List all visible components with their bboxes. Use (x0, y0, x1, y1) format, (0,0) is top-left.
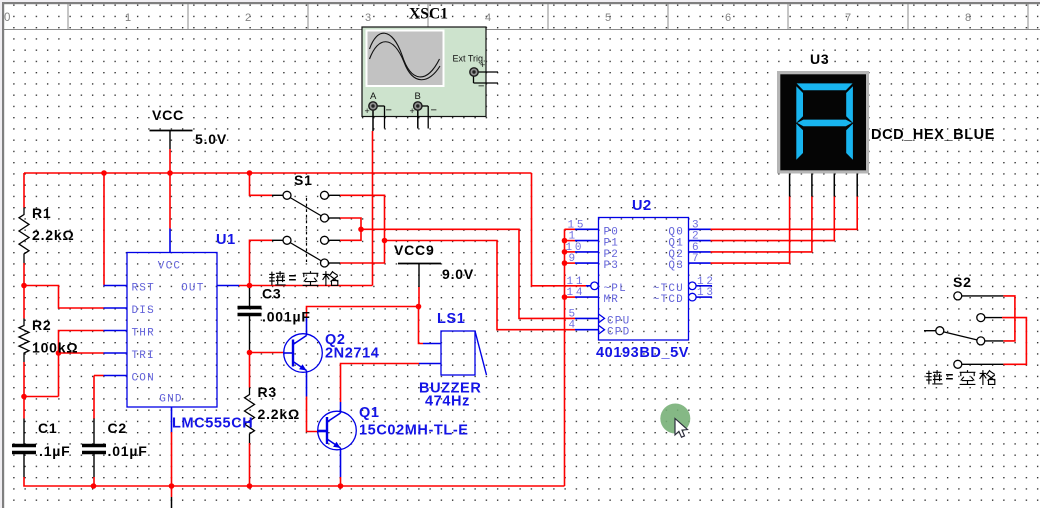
counter U2 40193BD_5V body (599, 218, 689, 341)
svg-text:6: 6 (725, 12, 731, 24)
U3 segment a (797, 83, 853, 90)
wire bus to U1 VCC pin (169, 173, 171, 229)
svg-text:U3: U3 (810, 51, 830, 67)
svg-text:Q1: Q1 (359, 405, 380, 421)
Ext Trig + stub (479, 71, 498, 73)
wire junction to LS1 pin1 (419, 307, 424, 344)
svg-text:11: 11 (567, 276, 586, 288)
window border top (0, 0, 1040, 2)
U2 MR stub (575, 296, 599, 298)
LS1 pin 2 (419, 363, 441, 365)
svg-text:3: 3 (365, 12, 371, 24)
svg-text:S2: S2 (953, 274, 972, 290)
junction U1 GND/ground bus (169, 483, 175, 489)
wire R2 bottom to node B (23, 362, 25, 397)
svg-text:6: 6 (692, 242, 701, 254)
svg-text:U1: U1 (216, 232, 236, 248)
S1 blade B (290, 243, 322, 262)
svg-text:+: + (410, 106, 415, 116)
svg-text:R2: R2 (32, 317, 52, 333)
svg-text:CPD: CPD (607, 327, 630, 339)
svg-text:A: A (370, 91, 377, 102)
junction bus/S1 drop (247, 170, 253, 176)
S2 contact 1 stub (962, 295, 1004, 297)
svg-text:7: 7 (845, 12, 851, 24)
wire: Q1 collector to LS1 pin2 (341, 364, 420, 403)
svg-text:5: 5 (569, 308, 578, 320)
wire: Q2 emitter to Q1 base (307, 397, 319, 432)
svg-text:CON: CON (132, 373, 155, 385)
wire to U2 CPD pin4 (385, 241, 576, 330)
U2 left pin stubs P0-P3 (565, 228, 576, 230)
capacitor C3 (249, 288, 251, 306)
svg-text:3: 3 (692, 219, 701, 231)
wire node A to U1 DIS (24, 286, 104, 309)
XSC1 terminal B (414, 102, 422, 110)
wire: U1 GND pin to ground bus (171, 432, 173, 497)
wire scope channel A drop (372, 131, 374, 286)
svg-text:C2: C2 (108, 420, 128, 436)
buzzer LS1 (441, 331, 475, 375)
svg-text:MR: MR (604, 294, 620, 306)
U3 segment f (796, 86, 803, 123)
resistor R1 (19, 208, 29, 264)
S2 contact 4 stub (962, 363, 1004, 365)
svg-text:Q2: Q2 (668, 249, 684, 261)
junction R3/ground bus (247, 483, 253, 489)
U2 right stubs Q0-Q3 (689, 228, 711, 230)
svg-text:0: 0 (4, 12, 10, 24)
junction OUT/C3/S1-B (247, 283, 253, 289)
svg-text:Q1: Q1 (668, 238, 684, 250)
svg-text:.1µF: .1µF (39, 443, 71, 459)
mouse cursor (675, 419, 688, 438)
junction VCC9/LS1/Q2 (416, 304, 422, 310)
wire VCC9 to junction (418, 287, 420, 307)
wire: Q2 collector to VCC9 node (307, 307, 419, 319)
svg-text:9: 9 (569, 253, 578, 265)
label S2 key = space (键 = 空格) (926, 370, 942, 384)
wire: ground bottom bus (24, 477, 565, 486)
svg-text:2: 2 (245, 12, 251, 24)
svg-text:8: 8 (965, 12, 971, 24)
svg-text:12: 12 (697, 276, 716, 288)
VCC9 power symbol (398, 263, 441, 265)
svg-text:2.2kΩ: 2.2kΩ (258, 406, 300, 422)
wire U1 CON stub link (94, 375, 104, 377)
svg-text:100kΩ: 100kΩ (32, 340, 78, 356)
S1 blade A (290, 198, 322, 217)
wire node B right (24, 396, 59, 398)
svg-text:P0: P0 (604, 226, 620, 238)
wire C2 bottom to bus (93, 477, 95, 486)
junction TRI tap (56, 350, 62, 356)
svg-text:VCC: VCC (152, 107, 184, 123)
svg-text:13: 13 (697, 287, 716, 299)
svg-text:2: 2 (692, 231, 701, 243)
junction VCC/bus (167, 170, 173, 176)
junction S1 net to U2 CPD (382, 238, 388, 244)
svg-text:5: 5 (605, 12, 611, 24)
wire: R1 branch from bus (23, 173, 25, 208)
junction C3/R3/Q2 base (247, 350, 253, 356)
svg-text:C3: C3 (262, 286, 282, 302)
U3 segment e (796, 124, 803, 160)
label S1 key = space (键 = 空格) (269, 271, 285, 285)
wire S2 contact2-contact4 (1002, 318, 1026, 365)
svg-text:15C02MH-TL-E: 15C02MH-TL-E (359, 423, 469, 439)
wire R1 bottom to node A (23, 263, 25, 286)
LS1 horn diagonal (475, 331, 487, 375)
svg-text:−: − (386, 105, 392, 117)
wire down to R3 (249, 353, 251, 388)
svg-text:14: 14 (567, 287, 586, 299)
svg-text:R1: R1 (32, 205, 52, 221)
wire to U2 CPU pin5 (361, 229, 575, 318)
transistor Q2 (284, 334, 323, 373)
svg-text:~PL: ~PL (604, 283, 627, 295)
capacitor C1 (23, 419, 25, 445)
svg-text:=: = (946, 370, 954, 385)
wire: U1 OUT node horizontal (239, 285, 373, 287)
junction C2/ground bus (91, 483, 97, 489)
U3 segment c (846, 124, 853, 160)
wire to Q2 base (250, 352, 284, 354)
svg-text:−: − (478, 81, 484, 93)
wire CON down to C2 (93, 376, 95, 420)
S2 common stub (924, 330, 936, 332)
S1 link dashed (306, 198, 308, 262)
U2 CPU/CPD stubs (575, 317, 599, 319)
wire S2 contact1-contact3 (1003, 296, 1015, 341)
wire: S1 pole B to U1 OUT node (250, 240, 273, 285)
svg-text:CPU: CPU (607, 315, 630, 327)
node A junction R1/R2/DIS (21, 283, 27, 289)
svg-text:C1: C1 (38, 420, 58, 436)
XSC1 terminal A (369, 102, 377, 110)
display U3 DCD_HEX_BLUE (777, 71, 869, 174)
svg-text:OUT: OUT (181, 283, 204, 295)
wire: U2 Q1 to U3 pin3 (711, 197, 835, 241)
window border left (0, 0, 2, 508)
wire MR tie (565, 296, 576, 298)
svg-text:DIS: DIS (132, 305, 155, 317)
wire: U2 Q0 to U3 pin4 (711, 197, 858, 230)
wire: S1 throw A-top to node down right (340, 195, 385, 263)
junction MR tie (562, 294, 568, 300)
svg-text:Q0: Q0 (668, 226, 684, 238)
svg-text:B: B (415, 91, 421, 102)
cursor highlight circle (660, 404, 690, 434)
svg-text:.001µF: .001µF (262, 309, 311, 325)
svg-text:P1: P1 (604, 238, 620, 250)
svg-text:7: 7 (692, 253, 701, 265)
U3 segment g (797, 120, 852, 127)
svg-text:10: 10 (566, 242, 585, 254)
junction S1 net to U2 CPU (358, 227, 364, 233)
XSC1 Ext Trig terminal (470, 68, 478, 76)
svg-text:4: 4 (485, 12, 491, 24)
wire to U1 TRI (59, 352, 104, 354)
svg-text:2.2kΩ: 2.2kΩ (32, 227, 74, 243)
resistor R2 (19, 319, 29, 363)
svg-text:R3: R3 (258, 384, 278, 400)
svg-text:RST: RST (132, 283, 155, 295)
oscilloscope XSC1 (362, 27, 486, 117)
svg-text:~TCD: ~TCD (653, 294, 684, 306)
svg-text:2N2714: 2N2714 (325, 346, 379, 362)
svg-text:40193BD_5V: 40193BD_5V (596, 345, 689, 361)
svg-text:P2: P2 (604, 249, 620, 261)
wire to U1 THR (59, 331, 104, 397)
ruler band (0, 29, 1040, 31)
Ext Trig - stub (474, 82, 499, 84)
svg-text:1: 1 (569, 231, 578, 243)
op-amp/timer U1 LMC555CH body (127, 253, 217, 408)
LS1 pin 1 (423, 343, 441, 345)
svg-text:9.0V: 9.0V (442, 266, 474, 282)
wire Q1 emitter to ground bus (340, 477, 342, 486)
resistor R3 (245, 388, 255, 444)
wire bus to U1 RST (103, 173, 105, 286)
U2 ~TCU ~TCD stubs with bubbles (689, 282, 697, 290)
S2 blade (943, 332, 977, 340)
wire: U2 Q3 to U3 pin1 (711, 197, 790, 264)
svg-text:1: 1 (125, 12, 131, 24)
svg-text:4: 4 (569, 320, 578, 332)
svg-text:~TCU: ~TCU (653, 283, 684, 295)
svg-text:5.0V: 5.0V (195, 131, 227, 147)
svg-text:THR: THR (132, 328, 155, 340)
U1 pin stubs (104, 285, 128, 287)
svg-text:+: + (365, 106, 370, 116)
svg-text:LS1: LS1 (437, 311, 465, 327)
wire: bus to S1 pole A (250, 173, 273, 195)
svg-text:−: − (431, 105, 437, 117)
svg-text:=: = (289, 271, 297, 286)
capacitor C2 (93, 419, 95, 445)
XSC1 waveform (370, 33, 440, 77)
wire: ground vertical feeding U2 inputs (564, 229, 566, 486)
junction Q1 emitter/ground bus (338, 483, 344, 489)
svg-text:Q3: Q3 (668, 260, 684, 272)
S2 contact 3 stub (985, 340, 1004, 342)
svg-text:474Hz: 474Hz (425, 394, 470, 410)
svg-text:.01µF: .01µF (108, 443, 148, 459)
XSC1 terminal stub wires (372, 111, 374, 131)
VCC power symbol (150, 130, 193, 132)
svg-text:GND: GND (159, 394, 182, 406)
wire: VCC bus right end down to U2 ~PL (532, 173, 587, 286)
svg-text:VCC: VCC (158, 260, 181, 272)
wire node A to R2 top (23, 286, 25, 319)
svg-text:DCD_HEX_BLUE: DCD_HEX_BLUE (871, 127, 995, 143)
svg-text:LMC555CH: LMC555CH (172, 416, 253, 432)
svg-text:S1: S1 (294, 172, 313, 188)
svg-text:+: + (480, 60, 485, 70)
wire VCC symbol to bus (169, 149, 171, 173)
U2 ~PL stub with bubble (586, 285, 591, 287)
svg-text:XSC1: XSC1 (409, 6, 448, 23)
wire node B down to C1 (23, 397, 25, 419)
svg-text:15: 15 (568, 219, 587, 231)
junction bus/RST drop (101, 170, 107, 176)
wire: U2 Q2 to U3 pin2 (711, 197, 812, 252)
svg-text:TRI: TRI (132, 350, 155, 362)
U3 segment b (846, 86, 853, 123)
svg-text:P3: P3 (604, 260, 620, 272)
transistor Q1 (318, 411, 357, 450)
svg-text:VCC9: VCC9 (394, 242, 435, 258)
S2 contact 2 stub (985, 317, 1003, 319)
wire R3 bottom to ground bus (249, 443, 251, 486)
wire: VCC top bus y=173 (24, 172, 532, 174)
wire: S1 throw A-bottom to B-top (340, 218, 361, 240)
node B junction R2/C1/THR (21, 394, 27, 400)
svg-text:U2: U2 (632, 198, 652, 214)
